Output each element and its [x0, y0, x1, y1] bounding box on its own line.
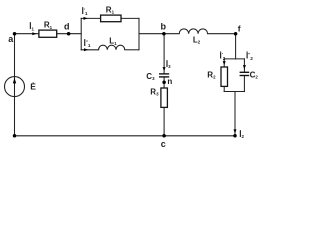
svg-text:n: n — [167, 77, 172, 86]
wire top branch left — [81, 17, 100, 19]
wire R3 to node c — [163, 107, 165, 135]
svg-text:d: d — [64, 21, 70, 31]
wire R2 branch top — [223, 59, 225, 67]
node d — [67, 32, 71, 36]
current arrow I''1 — [84, 48, 88, 51]
wire C2 branch top — [243, 59, 245, 72]
node n — [162, 80, 166, 84]
svg-text:C2: C2 — [250, 71, 259, 80]
inductor L2 — [179, 29, 207, 34]
current arrow I3 — [163, 67, 166, 71]
EMF source E circle — [5, 77, 25, 97]
wire bottom rail — [15, 135, 236, 137]
node f — [234, 32, 238, 36]
svg-text:L2: L2 — [193, 35, 201, 44]
svg-text:R2: R2 — [207, 70, 216, 79]
wire left split vertical — [80, 18, 82, 49]
svg-text:İ′2: İ′2 — [220, 52, 226, 61]
resistor R1 top branch box — [101, 15, 121, 22]
resistor R2 box — [221, 67, 228, 86]
current arrow I2 — [234, 129, 237, 133]
svg-text:c: c — [161, 139, 166, 149]
wire parallel top bar — [224, 58, 244, 60]
resistor R1 series box — [39, 30, 57, 37]
wire a to R1 — [15, 33, 39, 35]
svg-text:İ″1: İ″1 — [84, 39, 91, 48]
capacitor C2 plates — [240, 72, 250, 75]
svg-text:Ė: Ė — [30, 81, 36, 91]
svg-text:R1: R1 — [44, 21, 53, 30]
current arrow I''2 — [243, 65, 246, 69]
wire top branch right — [121, 17, 139, 19]
svg-text:R1: R1 — [106, 6, 115, 15]
current arrow I'2 — [223, 61, 226, 65]
wire f down to parallel top bar — [235, 34, 237, 59]
capacitor C3 plates — [159, 74, 169, 77]
svg-text:R3: R3 — [150, 87, 159, 96]
wire L2 to f — [208, 33, 236, 35]
wire R2 branch bottom — [223, 86, 225, 91]
node c — [162, 134, 166, 138]
bottom-right corner junction — [233, 134, 237, 138]
wire bottom branch left — [81, 49, 98, 51]
wire left rail a to bottom-left corner — [14, 34, 16, 136]
svg-text:f: f — [238, 23, 241, 33]
wire parallel bottom bar — [224, 91, 244, 93]
svg-text:İ2: İ2 — [239, 130, 244, 139]
node b — [162, 32, 166, 36]
svg-text:a: a — [8, 34, 14, 44]
svg-text:İ″2: İ″2 — [246, 52, 253, 61]
wire parallel bar down to bottom rail — [234, 92, 236, 136]
current arrow I'1 — [84, 17, 88, 20]
wire R1 to split (through node d) — [57, 33, 81, 35]
wire bottom branch right — [125, 49, 139, 51]
svg-text:İ1: İ1 — [29, 22, 34, 31]
svg-text:C3: C3 — [146, 72, 155, 81]
wire C3 to R3 (through node n) — [163, 77, 165, 88]
wire junction to L2 (through node b) — [139, 33, 179, 35]
current arrow I1 — [32, 32, 36, 35]
svg-text:İ′1: İ′1 — [82, 7, 88, 16]
svg-text:İ3: İ3 — [166, 60, 171, 69]
svg-text:L1: L1 — [109, 37, 117, 46]
wire right junction vertical — [138, 18, 140, 49]
svg-text:b: b — [160, 21, 166, 31]
EMF source arrow — [13, 78, 16, 84]
inductor L1 — [99, 45, 125, 50]
resistor R3 box — [161, 88, 168, 107]
bottom-left corner junction — [13, 134, 17, 138]
wire C2 branch bottom — [243, 76, 245, 92]
wire b down to C3 — [163, 34, 165, 74]
node a — [13, 32, 17, 36]
